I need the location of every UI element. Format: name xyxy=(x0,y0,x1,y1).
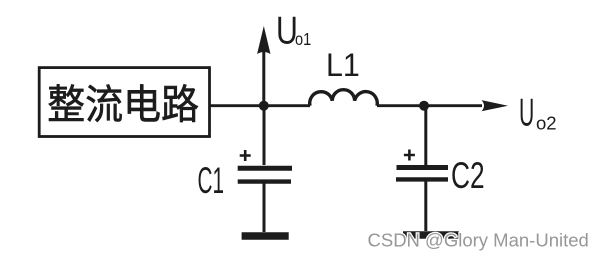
svg-text:U: U xyxy=(519,89,534,134)
ground bar under C1 xyxy=(242,232,289,240)
svg-text:C1: C1 xyxy=(198,161,224,202)
label U_o1 xyxy=(276,9,311,53)
capacitor C2 top plate xyxy=(397,165,449,170)
capacitor C1 bottom plate xyxy=(238,179,291,183)
capacitor C2 plus sign xyxy=(404,150,415,161)
svg-text:C2: C2 xyxy=(451,155,485,197)
wire: node B down to C2 xyxy=(424,106,427,165)
rectifier block box xyxy=(39,68,209,137)
wire: C1 to ground xyxy=(263,183,266,232)
wire: node A down to C1 xyxy=(263,106,266,165)
wire: C2 to ground xyxy=(424,181,427,231)
rectifier block label 整流电路 xyxy=(49,84,198,122)
svg-text:CSDN @Glory Man-United: CSDN @Glory Man-United xyxy=(368,230,589,251)
node A junction dot xyxy=(259,101,269,111)
svg-text:o1: o1 xyxy=(295,30,311,50)
label U_o2 xyxy=(519,89,557,134)
wire: vertical riser for Uo1 arrow xyxy=(262,44,265,106)
Uo1 arrowhead xyxy=(257,26,270,54)
ground bar under C2 xyxy=(403,231,459,239)
wire: box output to inductor xyxy=(210,104,310,107)
node B junction dot xyxy=(419,101,429,111)
wire: inductor to node B xyxy=(377,104,482,107)
capacitor C2 bottom plate xyxy=(396,177,448,181)
svg-text:o2: o2 xyxy=(536,113,557,134)
capacitor C1 plus sign xyxy=(240,150,251,161)
svg-text:L1: L1 xyxy=(326,47,360,83)
Uo2 output arrowhead xyxy=(482,100,509,111)
inductor L1 xyxy=(310,90,378,106)
capacitor C1 top plate xyxy=(238,166,292,171)
